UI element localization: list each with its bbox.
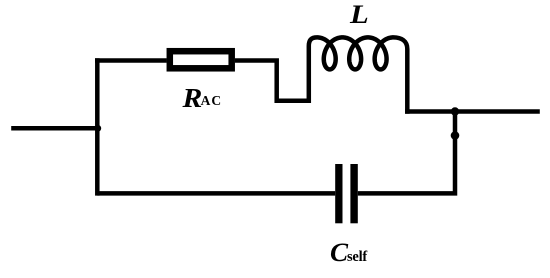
left terminal stub wire <box>11 126 97 131</box>
svg-text:AC: AC <box>201 93 223 108</box>
wire: top branch left of resistor <box>95 58 167 63</box>
wire: resistor to step-down <box>235 61 309 101</box>
node: right junction dot lower <box>451 131 460 140</box>
capacitor Cself left plate <box>335 164 342 223</box>
resistor RAC body <box>170 51 232 68</box>
node: left junction dot <box>94 125 101 132</box>
capacitor Cself right plate <box>350 164 357 223</box>
svg-text:self: self <box>347 249 367 265</box>
wire: left vertical between branches <box>95 58 100 195</box>
wire: right horizontal to terminal <box>405 109 540 114</box>
inductor L coil <box>309 37 408 113</box>
wire: bottom branch left of capacitor <box>97 191 335 196</box>
svg-text:R: R <box>181 84 202 113</box>
node: right junction dot upper <box>451 107 459 115</box>
svg-text:L: L <box>349 1 369 29</box>
svg-text:C: C <box>330 238 348 267</box>
wire: right vertical down to bottom branch <box>358 112 455 194</box>
